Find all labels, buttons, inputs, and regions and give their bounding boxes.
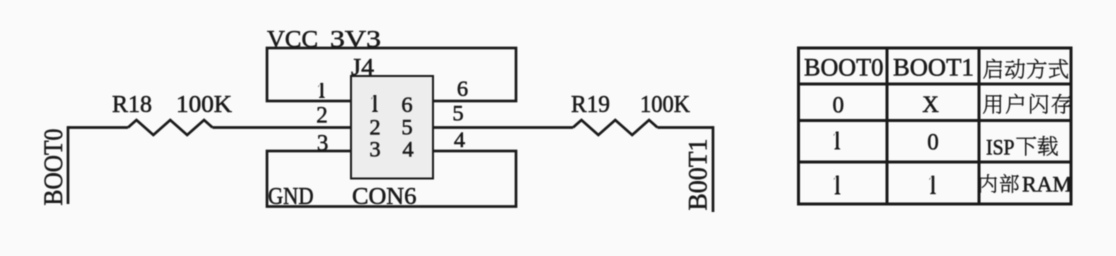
wire R18 to J4 pin 2 xyxy=(213,126,352,129)
wire R19 to BOOT1 xyxy=(658,126,714,129)
table cell r2 BOOT0 = 1 xyxy=(834,132,841,150)
pin 1 number label xyxy=(318,83,325,98)
ground rail loop to pins 3 and 4 xyxy=(267,151,516,207)
svg-text:BOOT1: BOOT1 xyxy=(893,55,974,82)
svg-text:J4: J4 xyxy=(351,55,374,81)
table cell r2 下载 download xyxy=(1016,137,1036,156)
table cell r3 内部 internal xyxy=(980,174,997,193)
wire BOOT0 to R18 xyxy=(68,126,128,129)
svg-text:BOOT0: BOOT0 xyxy=(39,129,68,206)
table header 启动方式 boot mode xyxy=(983,59,1001,79)
wire J4 pin 5 to R19 xyxy=(433,126,573,129)
pin 1 digit inside J4 xyxy=(371,95,378,112)
svg-text:4: 4 xyxy=(402,137,413,162)
power rail VCC loop to pins 1 and 6 xyxy=(267,48,516,101)
resistor R18 xyxy=(128,120,213,135)
svg-text:3V3: 3V3 xyxy=(330,27,381,53)
svg-text:100K: 100K xyxy=(640,92,691,118)
wire BOOT0 vertical stub xyxy=(67,126,70,204)
svg-text:0: 0 xyxy=(833,93,845,118)
svg-text:CON6: CON6 xyxy=(352,184,417,210)
svg-text:3: 3 xyxy=(317,131,329,156)
resistor R19 xyxy=(573,120,658,135)
svg-text:6: 6 xyxy=(457,76,468,101)
svg-text:R18: R18 xyxy=(112,92,152,118)
table cell r1 用户闪存 user flash xyxy=(983,95,1001,114)
svg-text:100K: 100K xyxy=(176,92,233,118)
svg-text:6: 6 xyxy=(401,92,412,117)
svg-text:BOOT0: BOOT0 xyxy=(804,55,884,82)
svg-text:3: 3 xyxy=(369,137,380,162)
svg-text:2: 2 xyxy=(316,103,328,128)
svg-text:B00T1: B00T1 xyxy=(684,139,713,211)
svg-text:5: 5 xyxy=(452,101,463,126)
connector J4 body CON6 xyxy=(351,76,433,179)
svg-text:X: X xyxy=(922,92,939,117)
svg-text:4: 4 xyxy=(454,127,465,152)
table cell r3 BOOT1 = 1 xyxy=(929,176,936,195)
svg-text:RAM: RAM xyxy=(1022,172,1072,197)
svg-text:R19: R19 xyxy=(571,92,610,118)
table cell r3 BOOT0 = 1 xyxy=(834,176,841,195)
svg-text:0: 0 xyxy=(927,130,939,155)
boot mode table grid xyxy=(797,47,1073,206)
svg-text:GND: GND xyxy=(268,184,314,210)
svg-text:ISP: ISP xyxy=(986,135,1015,160)
wire BOOT1 vertical stub xyxy=(712,126,715,212)
svg-text:VCC: VCC xyxy=(267,27,318,53)
